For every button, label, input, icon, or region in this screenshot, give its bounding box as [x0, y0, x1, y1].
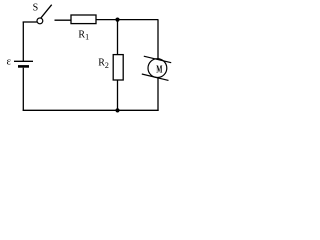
battery cell: long plate (positive) [14, 60, 33, 62]
resistor R1 box [71, 15, 96, 24]
wire: middle branch from top junction down to R2 [117, 20, 119, 55]
wire: R2 to bottom junction [117, 80, 119, 111]
svg-text:M: M [156, 64, 163, 76]
wire: switch to resistor R1 [55, 19, 72, 21]
wire: bottom rail [23, 109, 159, 111]
wire: motor to bottom-right corner [157, 77, 159, 111]
svg-text:ε: ε [7, 55, 12, 67]
motor M circle [148, 59, 167, 78]
motor brush: bottom tangent stroke [142, 74, 169, 80]
wire: R1 to top-right corner [96, 19, 158, 21]
svg-text:S: S [33, 3, 39, 14]
wire: right vertical from top-right corner to motor [157, 20, 159, 59]
battery cell: short thick plate (negative) [18, 65, 29, 68]
wire: top-left horizontal from corner to switch pivot [23, 21, 38, 23]
node: bottom junction dot [115, 108, 119, 112]
switch S pivot circle [37, 18, 43, 24]
wire: battery to bottom-left corner [22, 68, 24, 111]
resistor R2 box [113, 55, 123, 80]
switch S blade (open) [41, 5, 52, 19]
motor brush: top tangent stroke [144, 56, 171, 63]
wire: left vertical from top-left corner down to battery top plate [22, 22, 24, 62]
node: top junction dot [115, 18, 119, 22]
